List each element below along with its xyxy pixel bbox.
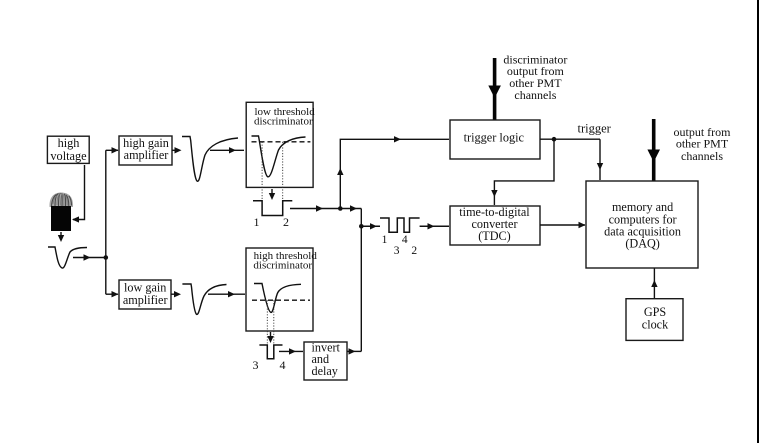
- dotted timing line 2: [282, 142, 284, 216]
- PMT body: [51, 206, 71, 231]
- label 3: [253, 358, 259, 372]
- label 4 (tdc): [402, 234, 408, 246]
- svg-text:1: 1: [254, 215, 260, 229]
- dotted timing line 1: [261, 142, 263, 216]
- wire: trigger to DAQ: [597, 139, 603, 180]
- threshold dashed line (low): [252, 141, 311, 143]
- wire: PMT output arrow down: [58, 232, 64, 242]
- wire: junction vertical: [105, 150, 107, 294]
- wire: trigger to TDC: [491, 139, 554, 205]
- wire: corner down to merge junction: [360, 209, 362, 352]
- wire: high voltage to PMT: [72, 165, 85, 223]
- waveform: amplified pulse (low gain): [182, 284, 226, 314]
- wire: discriminator output arrow down (high): [267, 332, 273, 343]
- block: high gain amplifier: [119, 136, 172, 165]
- svg-text:amplifier: amplifier: [123, 293, 168, 307]
- svg-text:4: 4: [280, 358, 286, 372]
- dotted timing line 4: [273, 300, 275, 359]
- wire: up to trigger logic: [337, 136, 449, 208]
- label 1: [254, 215, 260, 229]
- waveform: logic pulse 1-2: [253, 201, 292, 216]
- svg-text:channels: channels: [681, 149, 723, 163]
- block: low threshold discriminator: [246, 102, 315, 187]
- svg-text:discriminator: discriminator: [253, 260, 312, 272]
- svg-text:(TDC): (TDC): [478, 229, 511, 243]
- threshold dashed line (high): [252, 299, 310, 301]
- node B (merge): [359, 224, 364, 229]
- wire: to invert and delay: [279, 348, 303, 354]
- svg-text:3: 3: [253, 358, 259, 372]
- wire: to low gain amplifier: [106, 291, 119, 297]
- wire: logic pulse to junction A: [290, 205, 361, 211]
- svg-text:trigger logic: trigger logic: [464, 131, 525, 145]
- wire: GPS clock to DAQ: [651, 269, 657, 299]
- wire: pulse to split junction: [73, 254, 106, 260]
- waveform: PMT pulse: [48, 247, 87, 268]
- svg-text:discriminator: discriminator: [254, 116, 313, 128]
- label 2: [283, 215, 289, 229]
- node A: [338, 206, 343, 211]
- svg-text:clock: clock: [642, 318, 669, 332]
- svg-text:2: 2: [411, 245, 417, 257]
- block: invert and delay: [304, 341, 347, 380]
- wire: pulse to high threshold discriminator: [208, 291, 245, 297]
- wire: low gain amp output arrow: [171, 291, 181, 297]
- label 1 (tdc): [382, 234, 388, 246]
- block: memory and computers for data acquisition (DAQ): [586, 181, 698, 268]
- label 3 (tdc): [394, 245, 400, 257]
- waveform: pulse inside low threshold discriminator: [252, 136, 306, 177]
- wire: invert and delay output up: [347, 348, 361, 354]
- svg-text:amplifier: amplifier: [124, 148, 169, 162]
- block: GPS clock: [626, 299, 683, 341]
- block: high threshold discriminator: [246, 248, 317, 331]
- PMT photocathode dome: [49, 193, 73, 208]
- block: trigger logic: [450, 120, 540, 159]
- block: high voltage: [47, 136, 89, 163]
- block: low gain amplifier: [119, 280, 171, 309]
- svg-text:(DAQ): (DAQ): [625, 236, 660, 250]
- svg-text:2: 2: [283, 215, 289, 229]
- svg-text:voltage: voltage: [50, 149, 87, 163]
- wire: to high gain amplifier: [106, 147, 119, 153]
- page edge line: [757, 0, 759, 443]
- label: trigger: [578, 122, 612, 136]
- dotted timing line 3: [266, 300, 268, 359]
- node: split junction: [104, 255, 109, 260]
- svg-text:delay: delay: [312, 364, 339, 378]
- thick arrow: output from other PMT channels: [647, 119, 660, 181]
- wire: trigger logic output: [540, 138, 600, 140]
- thick arrow: discriminator output from other PMT channels: [488, 58, 501, 120]
- node: trigger junction: [552, 137, 557, 142]
- waveform: combined pulses to TDC: [380, 218, 420, 232]
- waveform: pulse inside high threshold discriminator: [254, 284, 301, 313]
- wire: discriminator output arrow down: [269, 189, 275, 200]
- wire: pulse to low threshold discriminator: [210, 147, 244, 153]
- wire: high gain amp output arrow: [172, 147, 182, 153]
- annotation: discriminator output from other PMT channels: [503, 53, 567, 102]
- wire: TDC to DAQ: [540, 222, 586, 228]
- wire: waveform to TDC: [420, 223, 449, 229]
- waveform: logic pulse 3-4: [259, 345, 282, 359]
- label 4: [280, 358, 286, 372]
- svg-text:3: 3: [394, 245, 400, 257]
- block: time-to-digital converter (TDC): [450, 205, 540, 245]
- svg-text:4: 4: [402, 234, 408, 246]
- waveform: amplified pulse (high gain): [182, 137, 238, 182]
- annotation: output from other PMT channels: [674, 125, 732, 163]
- label 2 (tdc): [411, 245, 417, 257]
- svg-text:channels: channels: [514, 88, 556, 102]
- svg-text:1: 1: [382, 234, 388, 246]
- wire: merge junction to TDC waveform: [361, 223, 380, 229]
- svg-text:trigger: trigger: [578, 122, 612, 136]
